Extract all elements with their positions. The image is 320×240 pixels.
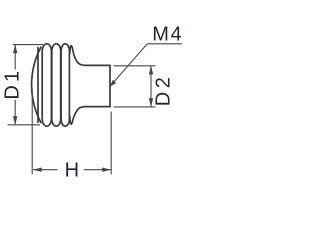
M4 leader diagonal	[110, 44, 148, 87]
H dimension line right segment	[84, 169, 111, 171]
H right arrow	[102, 168, 111, 172]
D2 bottom arrow	[149, 98, 153, 107]
partial rib spike and bottom flare into boss	[70, 107, 110, 125]
H left arrow	[33, 168, 42, 172]
knob head dome inner edge line	[37, 48, 39, 123]
D1 dimension line lower segment	[14, 100, 16, 125]
D2 top extension line	[114, 65, 156, 67]
H dimension line left segment	[33, 169, 57, 171]
D1 top arrow	[13, 44, 17, 53]
svg-text:D1: D1	[1, 68, 23, 100]
boss end face	[109, 65, 111, 106]
rib 2	[52, 44, 61, 126]
D1 bottom arrow	[13, 116, 17, 125]
H left extension line	[31, 88, 33, 174]
D2 bottom extension line	[114, 106, 156, 108]
M4 leader underline	[147, 43, 182, 45]
svg-text:M4: M4	[152, 24, 183, 46]
knob head dome outer arc	[32, 47, 41, 122]
svg-text:D2: D2	[152, 74, 174, 107]
D1 bottom extension line	[8, 124, 41, 126]
D1 dimension line upper segment	[14, 45, 16, 70]
partial rib spike and top flare into boss	[70, 46, 110, 66]
D2 dimension line	[150, 66, 152, 107]
D2 top arrow	[149, 66, 153, 75]
D1 top extension line	[13, 44, 43, 46]
M4 leader arrow	[110, 80, 116, 87]
rib 3	[61, 44, 69, 126]
rib 1	[42, 44, 51, 126]
svg-text:H: H	[65, 160, 79, 182]
H right extension line	[110, 112, 112, 175]
